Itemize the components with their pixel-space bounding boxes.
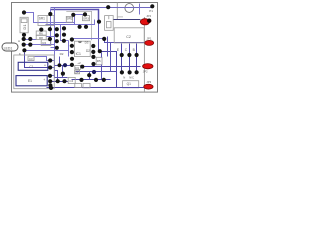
wire mid vertical small — [59, 57, 61, 66]
pad grid a4 — [55, 46, 59, 50]
wire LED row2 — [24, 44, 55, 46]
svg-text:SR3: SR3 — [83, 17, 89, 21]
pad grid b1 — [62, 26, 66, 30]
svg-text:K: K — [19, 52, 21, 56]
pads group — [22, 4, 155, 90]
wire C2 pin3 — [136, 44, 138, 73]
pad Q1 c — [128, 70, 132, 74]
transistor pads boxes B — [133, 48, 135, 52]
pad bat row1 — [48, 79, 52, 83]
wire cluster vertical — [61, 25, 64, 41]
resistor SR3 — [83, 16, 90, 21]
pad bottom wire — [102, 78, 106, 82]
capacitor C2 — [114, 28, 144, 43]
capacitor C4 — [68, 77, 75, 83]
pad bus A — [106, 5, 110, 9]
wire LED row1 — [24, 39, 37, 41]
pad mid e — [58, 63, 62, 67]
pad grid a1 — [55, 27, 59, 31]
pad mid bottom b — [87, 73, 91, 77]
pad mid bottom c — [79, 78, 83, 82]
capacitor C1 top — [105, 16, 114, 31]
transistor Q1 — [123, 81, 139, 88]
wire SR2 link — [74, 14, 86, 16]
wire to JP4 pad — [105, 39, 145, 43]
svg-text:A: A — [18, 39, 20, 43]
svg-text:N: N — [123, 76, 125, 80]
wire center bus vertical — [54, 8, 56, 78]
pad SR3 — [97, 20, 101, 24]
svg-text:+2: +2 — [77, 61, 81, 65]
svg-text:JP2: JP2 — [143, 69, 148, 73]
pad bat 3 — [48, 74, 52, 78]
transistor pads boxes C — [125, 48, 128, 52]
pad LED r2c2 — [28, 43, 32, 47]
pad IC r3 — [91, 55, 95, 59]
pad on JP4 — [147, 19, 151, 23]
region divider vertical right column — [143, 17, 145, 92]
svg-text:JP3: JP3 — [146, 80, 151, 84]
pad SR2 right — [83, 12, 87, 16]
wire pin row — [72, 38, 105, 40]
battery cell E1 — [16, 76, 47, 86]
pad U left — [78, 25, 82, 29]
pad R6 — [39, 28, 43, 32]
pad left single — [48, 37, 52, 41]
svg-text:R8: R8 — [39, 36, 43, 40]
pad LED r1c1 — [22, 37, 26, 41]
svg-text:JP1: JP1 — [147, 37, 152, 41]
pad mid f navy — [63, 63, 67, 67]
pad C — [127, 53, 131, 57]
svg-text:B: B — [133, 48, 135, 52]
pad IC l2 — [70, 44, 74, 48]
svg-text:D1: D1 — [22, 24, 27, 30]
pad junction navy — [92, 70, 96, 74]
wire IC left vertical — [68, 41, 70, 57]
wire C3 link — [35, 57, 51, 61]
svg-text:D3: D3 — [75, 66, 79, 70]
diode D4 — [75, 70, 80, 74]
svg-text:R4: R4 — [42, 41, 46, 45]
pad JP wire — [102, 37, 106, 41]
jumper JP3 red — [144, 84, 153, 89]
svg-text:D3: D3 — [85, 41, 89, 45]
capacitor C3 — [28, 56, 34, 61]
wire left riser from corner — [50, 9, 52, 45]
wire battery tap3 — [51, 75, 55, 77]
svg-text:D2: D2 — [86, 49, 90, 53]
pad mid g — [80, 65, 84, 69]
wire via column vertical — [110, 43, 112, 72]
region divider top right — [116, 3, 118, 20]
wire mid vertical drop — [62, 66, 64, 78]
wire mid vertical long — [98, 22, 100, 52]
pad E — [120, 53, 124, 57]
pad grid a3 — [55, 39, 59, 43]
box bottom small b — [83, 83, 90, 87]
box bottom small a — [75, 83, 82, 87]
wire stub top right — [139, 4, 141, 15]
wire stub 89.6 — [89, 72, 91, 80]
wire row 65 — [55, 65, 72, 67]
pad D1 bottom — [22, 33, 26, 37]
wire battery row — [51, 81, 69, 83]
wire R5 stub — [101, 53, 103, 58]
LED1 callout — [2, 43, 18, 51]
pad B — [135, 53, 139, 57]
diode D1 — [20, 17, 28, 33]
pad grid b3 — [62, 39, 66, 43]
resistor R5 — [96, 57, 102, 65]
resistor SR1 — [38, 16, 54, 26]
wire LED cathode down — [25, 53, 51, 68]
wire C2 pin2 — [129, 44, 131, 73]
transistor pads boxes E — [117, 48, 119, 52]
svg-text:C1: C1 — [30, 65, 34, 69]
pad bat row3 — [62, 79, 66, 83]
svg-text:R5: R5 — [97, 59, 101, 63]
wire LED row3 — [25, 50, 69, 52]
op-amp IC1 — [75, 41, 91, 56]
pad bat 1 — [48, 58, 52, 62]
pad bat bottom1 — [48, 83, 52, 87]
wire cluster link — [64, 40, 69, 42]
svg-text:SR2: SR2 — [67, 17, 73, 21]
pad D3 left — [70, 63, 74, 67]
jumper JP1 red — [145, 40, 154, 45]
resistor SR2 — [66, 16, 73, 22]
pad mid bottom d — [94, 78, 98, 82]
wire R5 down — [101, 65, 103, 80]
wire through Q1 — [117, 87, 144, 89]
pad IC r1 — [91, 44, 95, 48]
pad IC l3 — [70, 50, 74, 54]
svg-text:P1: P1 — [149, 9, 153, 13]
battery holder outline — [14, 55, 54, 89]
pad bat 2 — [48, 65, 52, 69]
wire R4 link — [51, 47, 57, 49]
wire mid bus — [46, 24, 75, 26]
wire to JP2 — [83, 66, 141, 68]
pad IC r4 — [91, 62, 95, 66]
pad LED k — [22, 48, 26, 52]
pad LED r1c2 — [28, 37, 32, 41]
wire mid right vertical — [107, 37, 109, 57]
wire D1 loop — [25, 13, 75, 23]
pad SR1 — [48, 12, 52, 16]
resistor R4 — [41, 40, 51, 46]
wire top bus A — [51, 7, 153, 9]
svg-text:SR1: SR1 — [39, 17, 45, 21]
pad SR2 left — [71, 13, 75, 17]
pad bat row2 — [56, 79, 60, 83]
pad riser — [48, 27, 52, 31]
pad U right — [84, 25, 88, 29]
jumper JP2 red — [143, 64, 153, 69]
wire row mid bottom — [72, 79, 111, 81]
svg-text:IC1: IC1 — [76, 52, 81, 56]
svg-text:R2: R2 — [60, 52, 64, 56]
svg-text:D4: D4 — [75, 70, 79, 74]
pad P1 — [150, 4, 154, 8]
pad IC r2 — [91, 50, 95, 54]
wire C2 pin1 — [121, 44, 123, 73]
svg-text:E1: E1 — [28, 79, 32, 83]
wire SR U-shape — [75, 16, 95, 25]
region outline mid — [66, 11, 91, 40]
svg-text:C3: C3 — [29, 57, 33, 61]
wire stub 70.4 — [55, 71, 58, 82]
pad R5 top — [98, 49, 102, 53]
svg-text:+: + — [43, 78, 45, 82]
mounting hole — [125, 4, 134, 13]
board outline — [12, 3, 158, 93]
battery cell C1 — [18, 62, 48, 70]
jumper JP4 red — [140, 19, 149, 25]
svg-text:JP4: JP4 — [146, 14, 151, 18]
pad mid bottom a — [61, 72, 65, 76]
svg-text:C2: C2 — [126, 35, 131, 39]
wire top bus B — [51, 10, 99, 22]
wire mid corner — [55, 77, 68, 79]
wire IC out to right — [47, 52, 117, 88]
diode D3 — [75, 65, 81, 69]
pad IC l4 — [70, 57, 74, 61]
pad IC l1 — [70, 37, 74, 41]
wire top right dark — [114, 19, 141, 21]
resistor R8 — [36, 35, 46, 39]
pad LED r2c1 — [22, 43, 26, 47]
svg-text:C4: C4 — [69, 79, 73, 83]
svg-text:N/C: N/C — [129, 76, 134, 80]
resistor R6 — [36, 31, 46, 35]
pad Q1 b — [135, 70, 139, 74]
wire battery taps — [52, 60, 55, 62]
region divider stub — [117, 16, 123, 18]
svg-text:E: E — [117, 48, 119, 52]
pad Q1 e — [120, 70, 124, 74]
pad grid b2 — [62, 33, 66, 37]
svg-text:R6: R6 — [39, 31, 43, 35]
pad bat bottom2 — [49, 86, 53, 90]
pad D1 top — [22, 10, 26, 14]
wire R8 link — [47, 36, 55, 38]
wire row 71.7 — [76, 71, 117, 73]
svg-text:Q1: Q1 — [127, 82, 131, 86]
wire battery tap2 — [52, 67, 55, 69]
svg-text:+: + — [44, 63, 46, 67]
svg-text:LED1: LED1 — [4, 47, 13, 51]
pad grid a2 — [55, 33, 59, 37]
